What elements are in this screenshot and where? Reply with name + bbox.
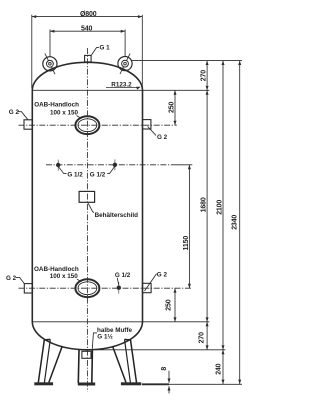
lifting lug left bbox=[43, 57, 57, 71]
svg-text:240: 240 bbox=[216, 363, 223, 374]
foot pad left bbox=[34, 382, 53, 385]
dimension 250 top line bbox=[174, 90, 176, 125]
leader G1/2 lower bbox=[117, 278, 119, 285]
lower level centerline bbox=[19, 287, 192, 289]
leader nameplate bbox=[88, 203, 94, 213]
leader G2 lower-left bbox=[16, 278, 24, 284]
nozzle G1/2 upper-left dot bbox=[56, 163, 60, 167]
svg-text:100 x 150: 100 x 150 bbox=[50, 273, 79, 280]
svg-text:G 1½: G 1½ bbox=[97, 333, 112, 341]
leader G2 lower-right bbox=[145, 274, 157, 291]
G1/2 level centerline bbox=[46, 164, 176, 166]
svg-text:8: 8 bbox=[161, 367, 168, 371]
svg-text:Ø800: Ø800 bbox=[80, 11, 97, 18]
half coupling muffe at bottom head bbox=[82, 351, 91, 358]
dimension O800 line bbox=[32, 16, 143, 18]
svg-text:1150: 1150 bbox=[183, 236, 190, 251]
nozzle G2 lower-right square bbox=[143, 283, 152, 292]
upper level centerline bbox=[19, 124, 177, 126]
bottom apex extension line bbox=[95, 349, 225, 351]
vessel shell left wall bbox=[31, 90, 33, 322]
bottom dished head bbox=[32, 322, 142, 350]
lug right diagonal centerline bbox=[120, 53, 130, 74]
ground line thick bbox=[142, 383, 169, 385]
svg-text:100 x 150: 100 x 150 bbox=[50, 110, 79, 117]
svg-text:540: 540 bbox=[81, 25, 92, 32]
bottom tangent weld line + extension right bbox=[32, 321, 209, 323]
nozzle G1/2 lower dot bbox=[117, 286, 121, 290]
svg-text:250: 250 bbox=[169, 102, 176, 113]
leg left bbox=[38, 339, 62, 382]
svg-text:G 1/2: G 1/2 bbox=[115, 272, 131, 279]
nozzle G2 upper-right square bbox=[143, 120, 151, 129]
nozzle G1/2 upper-right dot bbox=[113, 163, 117, 167]
svg-text:G 1/2: G 1/2 bbox=[90, 171, 106, 178]
svg-text:Behälterschild: Behälterschild bbox=[95, 212, 139, 219]
lug left diagonal centerline bbox=[45, 54, 55, 75]
vessel shell right wall bbox=[142, 90, 144, 322]
svg-text:OAB-Handloch: OAB-Handloch bbox=[34, 101, 79, 108]
dimension 8 foot plate bbox=[168, 371, 170, 383]
svg-text:270: 270 bbox=[201, 70, 208, 81]
handhole upper oval bbox=[75, 116, 99, 134]
dimension chain 2100/240 line bbox=[222, 61, 224, 385]
svg-text:OAB-Handloch: OAB-Handloch bbox=[34, 266, 79, 273]
leader G2 upper-right bbox=[148, 126, 156, 135]
top apex extension line bbox=[131, 60, 242, 62]
lifting lug right bbox=[118, 57, 132, 71]
svg-text:2100: 2100 bbox=[216, 200, 223, 215]
svg-text:1680: 1680 bbox=[201, 197, 208, 212]
foot pad right bbox=[121, 382, 141, 385]
nozzle G1 square on top head bbox=[85, 55, 92, 62]
leader halbe Muffe bbox=[92, 333, 97, 349]
dimension 250 bottom line bbox=[174, 288, 176, 322]
svg-text:2340: 2340 bbox=[231, 215, 238, 230]
svg-text:G 2: G 2 bbox=[157, 271, 168, 278]
dimension 540 extension lines bbox=[49, 29, 51, 56]
svg-text:G 1: G 1 bbox=[100, 45, 111, 52]
top tangent weld line + extension right bbox=[32, 89, 209, 91]
svg-text:250: 250 bbox=[165, 299, 172, 310]
nozzle G2 upper-left square bbox=[24, 120, 32, 129]
leader handhole lower bbox=[77, 279, 82, 282]
leader G1/2 upper-right bbox=[107, 167, 114, 174]
nameplate rectangle bbox=[79, 191, 95, 202]
nozzle G2 lower-left square bbox=[24, 284, 32, 293]
dimension 2340 line bbox=[239, 61, 241, 385]
dimension 540 line bbox=[50, 30, 125, 32]
svg-text:G 2: G 2 bbox=[6, 275, 17, 282]
foot pad center bbox=[78, 383, 95, 386]
leader G2 upper-left bbox=[18, 112, 28, 120]
svg-text:G 2: G 2 bbox=[157, 134, 168, 141]
leader handhole upper bbox=[77, 116, 82, 119]
radius leader with arrow bbox=[106, 87, 139, 89]
leader G1/2 upper-left bbox=[59, 167, 67, 174]
leg center bbox=[78, 350, 92, 383]
leg right bbox=[113, 339, 137, 382]
vertical centerline bbox=[86, 48, 88, 392]
leader G1 bbox=[91, 48, 99, 56]
dimension 1150 line bbox=[188, 165, 190, 288]
handhole lower oval bbox=[75, 279, 99, 297]
svg-text:G 2: G 2 bbox=[9, 109, 20, 116]
svg-text:270: 270 bbox=[198, 332, 205, 343]
dimension O800 extension lines bbox=[31, 15, 33, 89]
svg-text:G 1/2: G 1/2 bbox=[67, 171, 83, 178]
dimension chain 270/1680/270 line bbox=[206, 61, 208, 350]
top dished head bbox=[32, 62, 142, 90]
